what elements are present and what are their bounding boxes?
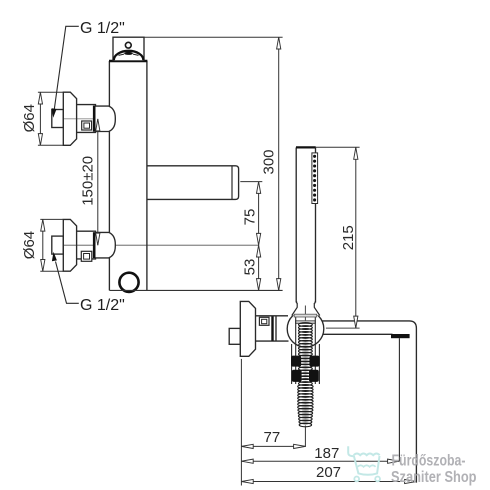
svg-text:207: 207 (316, 464, 341, 481)
arrow Ø64 lower bottom (41, 260, 45, 272)
shower handle top thick edge (296, 146, 316, 148)
dome arc (114, 51, 144, 60)
holder clamp outer sides (292, 344, 320, 384)
lower union square outer (81, 251, 92, 261)
cart wheel right (375, 477, 380, 482)
diverter knob circle (119, 273, 138, 292)
arrow 53 top (257, 245, 261, 257)
dimension 207 line (241, 481, 416, 483)
column body (109, 61, 146, 290)
arrow 187 right (388, 459, 400, 463)
spray dots (313, 155, 316, 202)
dimension 300 line (278, 37, 280, 290)
centerline upper union (53, 118, 97, 120)
aerator black mark (391, 334, 410, 338)
svg-text:G 1/2": G 1/2" (80, 20, 125, 37)
lower union stub (52, 236, 64, 254)
outlet left edge (398, 338, 400, 461)
lower union flange (63, 219, 76, 271)
hose clamp black band 2 left (292, 370, 302, 382)
dimension Ø64 lower: dimension line (42, 219, 44, 271)
holder cup band 2 (296, 321, 316, 324)
spray strip (312, 153, 318, 204)
upper union stub (52, 110, 64, 128)
svg-text:G 1/2": G 1/2" (80, 297, 125, 314)
upper union black divider (93, 106, 96, 132)
view2 flange (240, 301, 255, 356)
svg-text:Szaniter Shop: Szaniter Shop (391, 469, 477, 486)
dimension 150±20 line (97, 119, 99, 245)
arm centerline / 215 extension (326, 327, 360, 329)
arrow 150±20 bottom (96, 233, 100, 245)
svg-text:Ø64: Ø64 (21, 104, 38, 132)
arrow 215 bottom (354, 316, 358, 328)
bottom shared line (column bottom + extension) (109, 289, 282, 291)
spout arm top + right edge (322, 321, 416, 483)
arrow Ø64 upper bottom (38, 134, 42, 146)
leader top arrowhead (52, 108, 57, 118)
leader bottom arrowhead (52, 252, 57, 262)
arrow 300 bottom (277, 279, 281, 291)
dimension 75 extension line at spout (240, 181, 262, 183)
svg-text:77: 77 (264, 429, 281, 446)
dimension 187 line (241, 460, 399, 462)
handle cone right outline (314, 303, 320, 316)
cap rectangle (113, 37, 144, 60)
spout end cap line (231, 166, 233, 200)
lower union square inner (84, 254, 90, 260)
svg-text:300: 300 (261, 149, 278, 174)
holder cup band 1 (294, 314, 317, 317)
svg-text:187: 187 (314, 445, 339, 462)
view2 black divider (271, 317, 273, 341)
cart handle (348, 446, 354, 456)
shower handle sides (296, 148, 315, 303)
extension line 215 top (316, 146, 360, 148)
view2 stub (229, 328, 240, 344)
leader top (54, 26, 79, 109)
svg-text:215: 215 (340, 225, 357, 250)
view2 valve body (256, 316, 289, 341)
arrow 77 left (241, 444, 253, 448)
upper union valve body (77, 105, 96, 133)
handle cone left outline (292, 303, 297, 316)
dimension Ø64 upper: extension lines (38, 92, 63, 145)
leader bottom (56, 262, 79, 304)
upper union square inner (84, 123, 90, 128)
hose coil (298, 323, 313, 427)
svg-text:150±20: 150±20 (80, 156, 97, 206)
arrow 53 bottom (257, 279, 261, 291)
hose end line / 77 extension (304, 426, 306, 448)
arrow 150±20 top (96, 119, 100, 131)
arrow 207 right (405, 479, 417, 483)
dome inner band (124, 52, 133, 55)
hose clamp black band 1 left (291, 356, 301, 367)
svg-text:75: 75 (242, 209, 259, 226)
arrow Ø64 lower top (41, 219, 45, 231)
dimension 75 line (258, 182, 260, 246)
upper union bulge (96, 106, 116, 131)
arrow 207 left (241, 479, 253, 483)
dimension Ø64 lower: extension lines (40, 219, 63, 271)
dimension 53 line (258, 245, 260, 290)
view2 square outer (259, 317, 269, 325)
arrow 77 right (294, 444, 306, 448)
upper union flange (63, 92, 76, 145)
svg-text:53: 53 (242, 259, 259, 276)
cart inner wave (358, 465, 376, 467)
arrow 300 top (277, 37, 281, 49)
lower union black divider (93, 232, 96, 258)
arrow 75 bottom (257, 233, 261, 245)
centerline lower union / extension to 75-53 dimension (53, 244, 259, 246)
cart basket sides and bottom (354, 456, 380, 475)
arrow Ø64 upper top (38, 92, 42, 104)
view2 square inner (262, 319, 267, 323)
cap hole (125, 42, 131, 48)
dimension 300 top extension line (144, 36, 282, 38)
handle bottom dark joint (296, 302, 315, 304)
dimension Ø64 upper: dimension line (39, 92, 41, 145)
lower union bulge (96, 232, 116, 258)
holder circle (287, 311, 324, 348)
upper union square outer (82, 121, 92, 130)
hose axis line (304, 306, 306, 324)
handle cone mask (292, 301, 320, 315)
cart wheel left (354, 477, 359, 482)
hose clamp black band 2 right (309, 370, 319, 382)
dome inner edge ticks (119, 54, 139, 55)
spout arm bottom edge (323, 333, 392, 335)
arrow 187 left (241, 459, 253, 463)
arrow 75 top (257, 182, 261, 194)
dimension 77 line (241, 445, 305, 447)
left extension line (wall face) (240, 359, 242, 486)
hose clamp black band 1 right (309, 356, 319, 367)
svg-text:Ø64: Ø64 (21, 231, 38, 259)
cart basket wavy rim (354, 454, 380, 456)
lower union valve body (77, 231, 96, 259)
svg-text:Fürdőszoba-: Fürdőszoba- (392, 453, 466, 470)
dimension 215 line (355, 147, 357, 328)
spout (147, 166, 239, 200)
holder cup sides (296, 317, 316, 384)
arrow 215 top (354, 147, 358, 159)
column top thick edge (109, 60, 147, 63)
